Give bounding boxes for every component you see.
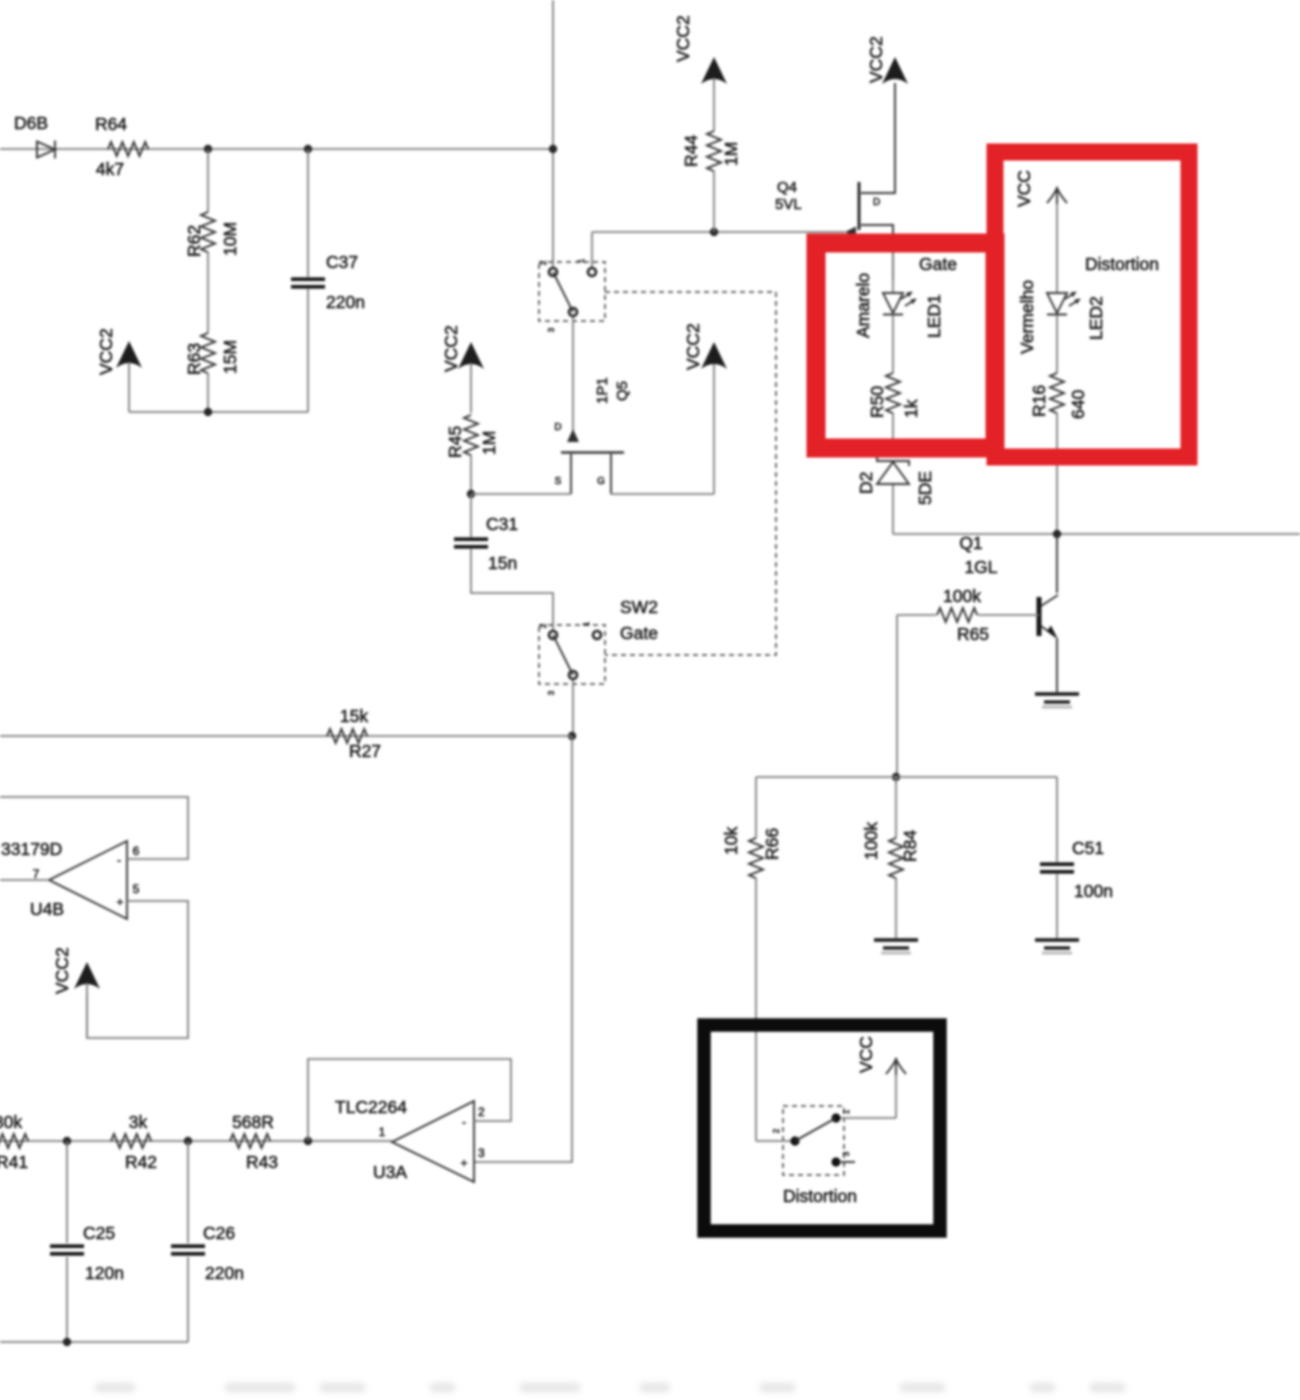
svg-text:Q4: Q4 <box>777 179 797 196</box>
node junction top-left R62 tap <box>204 145 212 153</box>
svg-text:VCC: VCC <box>856 1036 876 1073</box>
svg-text:1: 1 <box>379 1125 386 1139</box>
node junction R44 bottom <box>710 228 718 236</box>
transistor Q4 <box>775 83 895 280</box>
svg-text:3k: 3k <box>129 1112 148 1132</box>
svg-text:LED2: LED2 <box>1086 296 1106 340</box>
resistor R84 100k <box>861 777 920 938</box>
svg-text:1: 1 <box>582 621 591 626</box>
op-amp U4B <box>1 839 140 919</box>
svg-text:10k: 10k <box>721 827 741 855</box>
svg-text:R66: R66 <box>762 828 782 860</box>
svg-text:3: 3 <box>478 1146 485 1160</box>
wire U3A feedback loop <box>308 1059 511 1141</box>
svg-text:568R: 568R <box>232 1112 274 1132</box>
svg-text:Distortion: Distortion <box>783 1186 857 1206</box>
wire SW2 node down to U3A noninverting input <box>474 736 572 1162</box>
svg-text:VCC2: VCC2 <box>673 15 693 62</box>
switch SW1 <box>539 232 605 332</box>
power VCC inside black box <box>856 1036 906 1118</box>
resistor R62 10M <box>184 149 240 333</box>
diode D6B <box>14 113 55 159</box>
node junction bottom return <box>63 1338 71 1346</box>
resistor R63 15M <box>184 333 240 412</box>
node junction R45-C31 <box>467 490 475 498</box>
transistor Q1 1GL <box>959 533 1058 692</box>
svg-text:G: G <box>597 476 605 487</box>
faint ghost text bottom <box>95 1383 1125 1392</box>
svg-text:R44: R44 <box>681 135 701 167</box>
svg-text:1M: 1M <box>721 142 741 166</box>
svg-text:Amarelo: Amarelo <box>853 273 873 338</box>
svg-text:-: - <box>462 1115 466 1129</box>
wire bottom return net <box>0 1341 188 1343</box>
switch SW2 Gate <box>539 597 658 695</box>
highlight red box Distortion LED <box>995 152 1189 457</box>
wire R45 junction to Q5 source <box>471 493 571 495</box>
svg-text:R16: R16 <box>1029 385 1049 417</box>
svg-text:D2: D2 <box>856 472 876 494</box>
svg-text:R63: R63 <box>184 343 204 375</box>
svg-text:1: 1 <box>577 258 586 263</box>
power VCC2 symbol left <box>96 328 142 412</box>
svg-text:5: 5 <box>133 882 140 896</box>
node junction R63 bottom <box>204 408 212 416</box>
svg-text:+: + <box>116 895 123 909</box>
svg-text:C26: C26 <box>203 1223 235 1243</box>
wire divider horizontal <box>756 776 1057 778</box>
svg-text:C37: C37 <box>326 252 358 272</box>
power VCC2 at U4B <box>52 947 100 1038</box>
capacitor C31 15n <box>454 494 553 630</box>
svg-text:D6B: D6B <box>14 113 48 133</box>
svg-text:120n: 120n <box>85 1263 124 1283</box>
power VCC2 right of Q5 <box>683 323 727 494</box>
svg-text:VCC2: VCC2 <box>683 323 703 370</box>
resistor R16 640 <box>1029 315 1088 534</box>
wire U4B noninverting to VCC2 <box>87 901 188 1038</box>
resistor R64 4k7 <box>95 114 148 179</box>
svg-text:+: + <box>460 1156 467 1170</box>
ground below R84 <box>874 938 918 942</box>
resistor R41 30k <box>0 1112 28 1172</box>
LED LED1 Amarelo <box>853 252 944 338</box>
LED LED2 Vermelho <box>1017 280 1106 354</box>
svg-text:3: 3 <box>547 327 556 332</box>
wire Q5 gate to VCC2 stem <box>611 493 714 495</box>
svg-text:2: 2 <box>772 1128 781 1133</box>
svg-text:30k: 30k <box>0 1112 22 1132</box>
ground below C51 <box>1035 938 1079 942</box>
wire top vertical from sheet edge <box>552 0 554 268</box>
wire D2 node to right sheet edge <box>893 533 1300 535</box>
svg-text:C51: C51 <box>1072 838 1104 858</box>
resistor R50 1k <box>867 315 921 455</box>
zener diode D2 5DE <box>856 456 935 534</box>
highlight red box Gate LED <box>816 243 995 448</box>
svg-text:D: D <box>873 197 880 208</box>
capacitor C26 220n <box>171 1141 244 1342</box>
svg-text:R45: R45 <box>445 426 465 458</box>
resistor R43 568R <box>230 1112 278 1172</box>
node junction C37 tap <box>304 145 312 153</box>
svg-text:4k7: 4k7 <box>96 159 124 179</box>
svg-text:VCC: VCC <box>1014 170 1034 207</box>
node junction R27 / SW2 <box>568 732 576 740</box>
svg-text:2: 2 <box>539 623 548 628</box>
ganged switch dashed link SW1-SW2 <box>605 292 776 655</box>
svg-text:Q1: Q1 <box>959 533 982 553</box>
svg-text:Q5: Q5 <box>614 381 631 401</box>
svg-text:5VL: 5VL <box>775 196 802 213</box>
svg-text:Gate: Gate <box>620 623 658 643</box>
svg-text:Vermelho: Vermelho <box>1017 280 1037 354</box>
wire R27 horizontal net <box>0 735 572 737</box>
svg-text:1: 1 <box>842 1109 851 1114</box>
svg-text:10M: 10M <box>220 222 240 256</box>
wire bottom signal net <box>0 1140 392 1142</box>
svg-text:33179D: 33179D <box>1 839 62 859</box>
resistor R44 1M <box>681 131 741 232</box>
svg-text:5DE: 5DE <box>915 471 935 505</box>
resistor R42 3k <box>111 1112 157 1172</box>
svg-text:R42: R42 <box>125 1152 157 1172</box>
svg-text:R50: R50 <box>867 386 887 418</box>
power VCC2 above R45 <box>441 325 484 413</box>
transistor Q5 <box>554 317 631 494</box>
wire top horizontal net <box>0 148 553 150</box>
node junction U3A output <box>304 1137 312 1145</box>
svg-text:VCC2: VCC2 <box>52 947 72 994</box>
svg-text:1M: 1M <box>479 431 499 455</box>
svg-text:1GL: 1GL <box>964 557 997 577</box>
resistor R65 100k <box>897 586 1039 644</box>
wire Q1 base net down to divider <box>896 615 898 777</box>
svg-text:U4B: U4B <box>30 899 64 919</box>
power VCC2 above R44 <box>673 15 727 131</box>
node junction C25 tap <box>63 1137 71 1145</box>
wire bottom of R63 to VCC2 and C37 <box>129 411 308 413</box>
svg-text:3: 3 <box>842 1151 851 1156</box>
svg-text:220n: 220n <box>326 292 365 312</box>
svg-text:R62: R62 <box>184 225 204 257</box>
svg-text:R84: R84 <box>900 830 920 862</box>
svg-text:1P1: 1P1 <box>594 377 611 404</box>
svg-text:R43: R43 <box>246 1152 278 1172</box>
svg-text:7: 7 <box>33 867 40 881</box>
wire SW1 to Q4 gate net <box>592 231 845 233</box>
node junction collector net <box>1053 530 1061 538</box>
svg-text:VCC2: VCC2 <box>96 328 116 375</box>
capacitor C25 120n <box>50 1141 124 1342</box>
wire U4B feedback loop <box>0 797 188 859</box>
svg-text:SW2: SW2 <box>620 597 658 617</box>
power VCC2 above Q4 <box>866 36 908 84</box>
svg-text:C31: C31 <box>486 514 518 534</box>
svg-text:D: D <box>554 422 561 433</box>
svg-text:100k: 100k <box>943 586 981 606</box>
node junction divider <box>892 773 900 781</box>
svg-text:15k: 15k <box>340 706 368 726</box>
svg-text:1k: 1k <box>901 399 921 418</box>
svg-text:VCC2: VCC2 <box>866 36 886 83</box>
svg-text:220n: 220n <box>205 1263 244 1283</box>
svg-text:R27: R27 <box>349 741 381 761</box>
capacitor C51 100n <box>1040 777 1113 938</box>
power VCC inside red box <box>1014 170 1067 293</box>
svg-text:15M: 15M <box>220 340 240 374</box>
svg-text:100n: 100n <box>1074 881 1113 901</box>
svg-text:LED1: LED1 <box>924 294 944 338</box>
svg-text:S: S <box>555 476 562 487</box>
svg-text:VCC2: VCC2 <box>441 325 461 372</box>
svg-text:6: 6 <box>133 844 140 858</box>
svg-text:R41: R41 <box>0 1152 28 1172</box>
wire SW2 to R27 node <box>572 680 574 736</box>
svg-text:U3A: U3A <box>373 1162 407 1182</box>
svg-text:TLC2264: TLC2264 <box>335 1097 407 1117</box>
svg-text:2: 2 <box>478 1105 485 1119</box>
ground below Q1 emitter <box>1035 692 1079 696</box>
svg-text:Distortion: Distortion <box>1085 254 1159 274</box>
svg-text:Gate: Gate <box>919 254 957 274</box>
svg-text:-: - <box>117 853 121 867</box>
svg-text:R64: R64 <box>95 114 127 134</box>
svg-text:C25: C25 <box>83 1223 115 1243</box>
svg-text:640: 640 <box>1068 390 1088 419</box>
svg-text:3: 3 <box>547 690 556 695</box>
highlight black box <box>704 1025 940 1231</box>
node junction C26 tap <box>184 1137 192 1145</box>
resistor R27 15k <box>327 706 381 761</box>
svg-text:15n: 15n <box>488 553 517 573</box>
svg-text:100k: 100k <box>861 822 881 860</box>
node junction top vertical <box>549 145 557 153</box>
op-amp U3A TLC2264 <box>335 1097 485 1182</box>
switch SW3 Distortion <box>756 1106 896 1206</box>
resistor R66 10k <box>721 777 782 1141</box>
capacitor C37 220n <box>291 149 365 412</box>
wire U4B output to sheet edge <box>0 879 49 881</box>
svg-text:2: 2 <box>539 260 548 265</box>
svg-text:R65: R65 <box>957 624 989 644</box>
resistor R45 1M <box>445 415 499 494</box>
